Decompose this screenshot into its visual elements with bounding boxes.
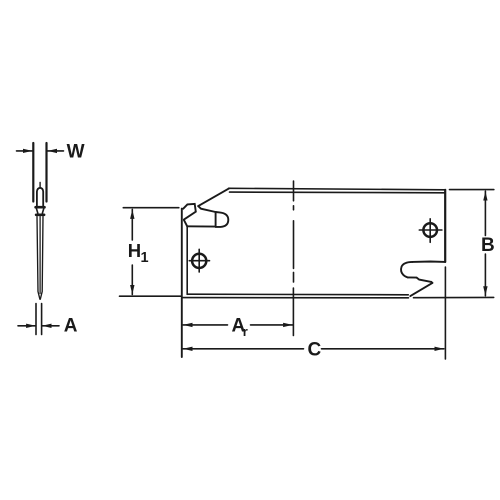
dimension A: left extension line: [35, 304, 37, 335]
clamp bottom line: [187, 225, 215, 227]
label Ar: [232, 315, 248, 339]
main view: bottom edge lower line: [182, 297, 409, 299]
center line dot 1: [293, 206, 295, 210]
dimension A: left arrow: [18, 325, 36, 327]
insert (top-left pocket) outline: [183, 204, 196, 220]
main view: top edge lower line: [230, 191, 446, 194]
right mounting hole circle: [423, 223, 437, 237]
main view: left inner edge line: [186, 226, 188, 294]
svg-text:W: W: [67, 142, 85, 163]
dimension B: lower arrow: [484, 254, 486, 296]
main view: top slope line to insert: [198, 188, 229, 206]
side view: shaft center line: [39, 217, 41, 294]
pocket 2: lobe rounded end: [401, 262, 412, 278]
side view: lower clamp band: [36, 214, 44, 217]
main view: top edge upper line: [229, 188, 446, 190]
label H1: [128, 240, 149, 266]
right hole cross vertical: [429, 219, 431, 243]
dimension C: right extension line: [444, 267, 446, 359]
side view: shaft left edge tapering to tip: [37, 217, 40, 300]
side view: insert dome profile: [37, 188, 43, 206]
svg-text:1: 1: [141, 250, 149, 266]
center line (dash-dot) segment 1: [293, 181, 295, 201]
dimension H1: upper arrow: [131, 209, 133, 240]
dimension H1: lower arrow: [131, 265, 133, 295]
center line (dash-dot) segment 2: [293, 221, 295, 269]
side view: neck taper left: [36, 208, 37, 213]
insert seat back slope: [184, 220, 187, 226]
dimension B: bottom extension line: [414, 296, 494, 298]
main view: right edge: [444, 190, 446, 262]
svg-text:C: C: [308, 339, 322, 360]
side view: neck taper right: [42, 208, 43, 213]
side view: blade outer left edge (W width): [32, 143, 34, 202]
left mounting hole circle: [192, 254, 206, 268]
dimension Ar: line with right arrow: [251, 324, 293, 326]
pocket 2: beak point join: [431, 282, 432, 283]
dimension C: line with left arrow: [183, 348, 304, 350]
side view: center tick above insert dome: [39, 182, 41, 187]
side view: shaft right edge tapering to tip: [40, 217, 43, 300]
dimension W: right arrow: [48, 150, 64, 152]
clamp top slope (top-left pocket): [198, 206, 215, 212]
svg-text:B: B: [481, 235, 495, 256]
svg-text:A: A: [64, 315, 78, 336]
svg-text:r: r: [243, 324, 248, 339]
main view: left front edge / extension line: [181, 209, 183, 357]
main view: bottom edge upper line: [187, 293, 408, 296]
clamp lobe rounded nose: [216, 212, 229, 227]
center line lower segment and Ar extension: [292, 288, 294, 336]
dimension A: right arrow: [42, 325, 59, 327]
svg-text:H: H: [128, 240, 141, 261]
dimension B: upper arrow: [484, 191, 486, 235]
left hole cross horizontal: [189, 260, 209, 262]
pocket 2: lobe bottom line with jog: [408, 277, 432, 282]
dimension B: top extension line: [450, 189, 494, 191]
dimension C: line with right arrow: [322, 348, 444, 350]
pocket 2: seat beak slope: [410, 283, 432, 296]
dimension Ar: line with left arrow: [183, 324, 228, 326]
side view: blade outer right edge (W width): [45, 143, 47, 202]
center line dot 2: [293, 272, 295, 282]
clamp lobe divider: [215, 212, 217, 227]
left hole cross vertical: [198, 249, 200, 272]
dimension A: right extension line: [41, 304, 43, 335]
dimension W: left arrow: [17, 150, 33, 152]
dimension H1: bottom extension line: [120, 295, 182, 297]
side view: upper clamp band: [36, 206, 45, 209]
pocket 2 (bottom-right): top line: [412, 261, 445, 263]
dimension H1: top extension line: [123, 207, 179, 209]
right hole cross horizontal: [419, 229, 442, 231]
